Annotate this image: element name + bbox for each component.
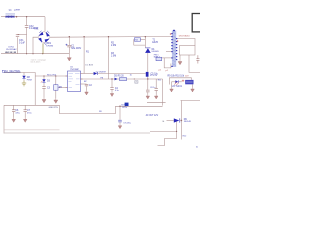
aux winding box	[156, 57, 162, 61]
svg-text:C9 220u: C9 220u	[123, 122, 131, 124]
svg-text:2.0M: 2.0M	[111, 45, 116, 47]
svg-text:A: A	[196, 146, 198, 149]
wire bottom box top	[181, 100, 201, 102]
spare part marker	[135, 81, 138, 84]
wire step low right	[158, 139, 177, 146]
capacitor C10 right edge	[196, 55, 199, 63]
capacitor C9 output (blue)	[118, 120, 122, 122]
opto LED arrows red	[174, 82, 178, 85]
diode D5 on feedback wire	[115, 78, 118, 81]
MOSFET node blue block	[146, 72, 149, 77]
svg-text:0.1u: 0.1u	[115, 90, 119, 92]
diode bridge top-left	[38, 32, 43, 36]
diode D3	[42, 79, 45, 82]
wire TVS earth stub	[23, 73, 25, 76]
capacitor C1 bulk	[67, 44, 71, 46]
wire stub to C filter	[18, 33, 27, 35]
ground C2	[85, 91, 89, 96]
wire bulk cap drop	[68, 37, 70, 46]
ground C7	[23, 118, 27, 123]
resistor R4 snubber box	[134, 38, 140, 41]
svg-text:RV1 275V: RV1 275V	[47, 75, 57, 77]
wire opto top rail	[169, 78, 191, 85]
junction fuse end	[16, 16, 18, 18]
wire long bottom line	[4, 129, 60, 131]
capacitor CX2 in vertical branch	[12, 26, 158, 112]
wire gnd bus riser	[116, 106, 163, 113]
wire TVS to cap	[43, 83, 45, 87]
wire under opto cluster	[147, 102, 166, 104]
svg-text:C3: C3	[47, 87, 51, 89]
wire opto gnd stub	[171, 82, 173, 88]
wire sec return drop	[189, 55, 200, 72]
ground C6	[12, 118, 16, 123]
wire AC_N label riser	[4, 73, 35, 106]
ground opto	[170, 88, 174, 93]
wire neutral riser to bridge left	[33, 37, 38, 54]
svg-text:85-265VAC: 85-265VAC	[6, 48, 17, 51]
svg-text:p1: p1	[166, 70, 169, 72]
wire bridge bottom stub (olive)	[42, 43, 44, 53]
wire snubber box to rail	[141, 39, 146, 41]
black doc box top right	[192, 14, 204, 32]
ground flags (maroon)	[12, 55, 194, 129]
svg-text:470u: 470u	[27, 112, 31, 114]
diode bridge bottom-right	[45, 39, 50, 43]
label AC_N hierarchical	[2, 70, 4, 72]
wire below aux res	[155, 91, 157, 95]
capacitor CX1	[16, 34, 19, 36]
svg-text:U3 TL431: U3 TL431	[172, 86, 183, 88]
wire DC+ rail	[50, 36, 172, 39]
wire secondary top	[176, 39, 195, 46]
junction neutral	[26, 53, 27, 54]
wire bias cap branch	[147, 77, 149, 90]
diode bridge top-right	[46, 32, 50, 37]
svg-text:2.0M: 2.0M	[111, 55, 116, 57]
svg-text:1A: 1A	[162, 120, 165, 123]
wire IC left upper net	[35, 75, 67, 77]
svg-text:BIAS 4: BIAS 4	[154, 55, 160, 58]
svg-text:RV1: RV1	[34, 29, 39, 31]
diode D8 TVS	[22, 76, 25, 79]
capacitor C3	[42, 86, 45, 88]
diode D2 bias	[94, 72, 98, 75]
transformer winding pips right	[176, 38, 177, 39]
svg-text:p2: p2	[159, 70, 162, 72]
plus sign of C1	[66, 44, 68, 46]
svg-text:D5 R5 20: D5 R5 20	[114, 76, 124, 78]
svg-text:R8: R8	[99, 111, 102, 113]
svg-text:0.1uF: 0.1uF	[19, 42, 25, 44]
transformer top pin	[173, 30, 175, 31]
ground C9	[118, 124, 122, 129]
optocoupler U2 LED	[175, 80, 178, 83]
wire tl431 gnd stub	[192, 84, 194, 87]
svg-text:CON1: CON1	[8, 46, 15, 48]
svg-text:R12: R12	[183, 135, 188, 137]
svg-text:UF4005: UF4005	[152, 51, 160, 53]
svg-text:DF06M: DF06M	[47, 45, 54, 47]
wire secondary gnd bus A	[4, 104, 60, 106]
wire AC neutral bottom	[1, 53, 69, 55]
bridge cathode bars	[39, 31, 50, 45]
junction bias	[111, 78, 112, 79]
svg-text:EF25: EF25	[152, 42, 158, 44]
svg-text:RTN: RTN	[122, 107, 127, 109]
wire bias/feedback net	[81, 78, 163, 80]
wire below CX2 to neutral	[26, 34, 28, 53]
wire snubber loop	[134, 40, 146, 46]
wire below C6	[13, 112, 15, 118]
wire cap C3 to gnd	[43, 89, 45, 98]
wire box R6 to gnd	[55, 90, 57, 98]
diode D1 snubber	[145, 48, 151, 53]
wire X-cap branch vertical	[26, 17, 28, 26]
wire bottom right return	[150, 130, 177, 132]
wire after bias diode	[97, 73, 145, 75]
wire primary return stub	[166, 51, 172, 53]
wire bypass cap c2	[86, 86, 88, 90]
wire bypass cap branch	[111, 79, 113, 87]
resistor R5 box on feedback wire	[120, 78, 127, 81]
capacitor C4	[110, 87, 113, 89]
wire out cap branch	[119, 106, 121, 120]
svg-text:TNY268P: TNY268P	[70, 69, 79, 71]
wire box R6 branch	[55, 76, 57, 85]
transformer T1 core bar	[170, 30, 179, 67]
capacitor C7	[24, 109, 27, 111]
svg-text:D2 1N4937: D2 1N4937	[96, 71, 107, 73]
svg-text:1N4148: 1N4148	[184, 121, 192, 123]
wire drop to IC drain	[83, 37, 85, 74]
R6 box	[54, 85, 58, 91]
red mark at D3	[41, 81, 43, 83]
svg-text:10mH: 10mH	[14, 10, 20, 12]
ground primary bulk	[67, 55, 71, 61]
svg-text:C2: C2	[89, 85, 93, 87]
wire diode to drain node	[147, 53, 149, 72]
capacitor C5 bias	[146, 89, 150, 91]
svg-text:470u: 470u	[15, 112, 19, 114]
wire below out cap	[119, 122, 121, 124]
wire below X-cap	[26, 28, 28, 35]
ground TL431	[191, 88, 195, 93]
svg-text:R9 10k R10 10k: R9 10k R10 10k	[168, 75, 185, 77]
wire feedback col	[162, 79, 164, 106]
junction dots on rail	[69, 36, 70, 37]
svg-text:BP: BP	[84, 81, 87, 83]
wire outcap C6	[13, 105, 15, 109]
wire diode D9 right	[181, 101, 183, 140]
wire below bias cap	[147, 92, 149, 94]
junction gnd bus	[119, 106, 120, 107]
wire aux winding lower L	[164, 58, 171, 68]
svg-text:1k: 1k	[130, 75, 132, 77]
sheet border line	[4, 132, 150, 134]
capacitor C2 bypass	[85, 83, 88, 85]
junction D9	[181, 120, 182, 121]
svg-text:R11: R11	[158, 80, 162, 82]
IC pin stubs	[66, 74, 83, 88]
svg-text:P6KE: P6KE	[27, 79, 33, 81]
junction fb node	[134, 78, 135, 79]
wire outcap C7	[24, 105, 26, 109]
fuse/choke L1 top-left upper winding	[6, 14, 16, 15]
ground C4	[110, 92, 114, 97]
transformer polarity dots red	[170, 33, 179, 42]
diode D9 bottom right	[174, 118, 180, 122]
wire bottom right diode net	[167, 120, 174, 122]
svg-text:VAC-IN_85: VAC-IN_85	[5, 51, 17, 54]
wire below C7	[24, 112, 26, 118]
capacitor C6	[12, 109, 15, 111]
wire drain net to IC	[83, 73, 94, 75]
wire aux res branch	[155, 79, 157, 88]
diode bridge bottom-left	[38, 38, 42, 43]
transformer winding pips left	[171, 30, 177, 67]
resistor R11 aux	[155, 88, 158, 90]
wire IC bypass pin	[83, 83, 87, 85]
wire IC pin left lower	[58, 87, 68, 89]
svg-text:D3: D3	[47, 80, 51, 82]
wire bulk cap lower	[68, 47, 70, 55]
svg-text:L1: L1	[9, 10, 12, 12]
wire opto led stubs	[172, 81, 176, 83]
svg-text:DC BUS: DC BUS	[85, 64, 93, 66]
IC U1 controller box	[66, 71, 83, 92]
wire gnd bus step	[60, 105, 116, 113]
ground C5	[146, 95, 150, 100]
wire left box edge	[3, 105, 5, 133]
wire below cap CX1	[17, 37, 19, 54]
ground secondary	[178, 60, 182, 65]
svg-text:R7 6.2k: R7 6.2k	[150, 75, 157, 77]
wire TVS branch	[43, 76, 45, 79]
TL431 U3 box	[185, 80, 193, 84]
wire TVS earth lower	[23, 79, 25, 81]
TL431 red mark	[182, 80, 184, 82]
choke L1 lower winding zigzag	[6, 16, 15, 18]
wire diode D9 to junction	[180, 120, 182, 122]
wire snubber drop	[144, 37, 146, 48]
svg-text:R1: R1	[86, 52, 90, 54]
svg-text:68u 400V: 68u 400V	[71, 48, 81, 50]
svg-text:C8 1n: C8 1n	[150, 87, 155, 89]
ground C3	[42, 98, 46, 103]
junction X cap	[26, 16, 27, 17]
svg-text:12V: 12V	[185, 75, 189, 77]
svg-text:min 6.4mm: min 6.4mm	[30, 62, 40, 64]
ground R6	[54, 98, 58, 103]
earth flag TVS (pale)	[22, 81, 26, 86]
wire below cap C4	[111, 90, 113, 92]
svg-text:DS1 SS210: DS1 SS210	[179, 36, 191, 38]
wire sense drop	[176, 122, 178, 139]
bridge rectifier DB1	[38, 31, 50, 43]
svg-text:J2 OUT 12V: J2 OUT 12V	[146, 115, 159, 117]
wire startup resistor chain	[108, 37, 110, 80]
svg-text:GND RTN: GND RTN	[49, 107, 59, 109]
wire sec gnd drop	[179, 55, 181, 60]
wire aux winding upper	[162, 57, 172, 59]
wire riser to bridge top	[44, 17, 46, 32]
wire secondary loop box	[180, 46, 196, 56]
wire AC line top	[1, 16, 45, 18]
ground R11	[154, 95, 158, 100]
